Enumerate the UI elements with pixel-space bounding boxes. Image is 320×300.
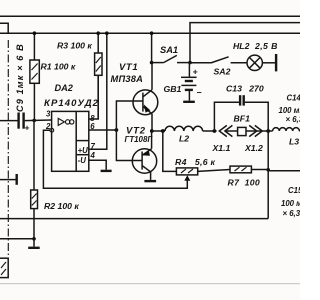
svg-text:L3: L3 [289, 137, 299, 147]
resistor (cropped, bottom-left) [0, 258, 8, 277]
wire VT2 collector to ground [150, 172, 153, 180]
svg-text:С13 270: С13 270 [226, 84, 264, 94]
svg-text:100 мк: 100 мк [281, 199, 300, 208]
node pin6 / base riser [115, 128, 119, 132]
ground (pin4) [101, 170, 112, 172]
svg-text:R7 100: R7 100 [228, 177, 261, 187]
svg-text:2,5 В: 2,5 В [254, 41, 278, 51]
resistor R7 [228, 166, 261, 187]
switch SA1 [152, 45, 190, 62]
resistor R1 [30, 33, 76, 120]
node R1 top on bus 2 [33, 31, 37, 35]
switch SA2 [189, 57, 247, 77]
svg-text:С14: С14 [287, 93, 301, 102]
wire lower left [0, 238, 34, 240]
wire bus 2 [0, 32, 300, 34]
wire pin2 feedback [43, 130, 187, 188]
ground (VT2) [144, 180, 156, 182]
wire base riser [116, 101, 142, 161]
node A (C9 / R1 / pin3) [32, 119, 36, 123]
wire VT2 emitter up [151, 131, 153, 149]
node R7 right [266, 168, 270, 172]
wire top bus [0, 15, 300, 17]
wire VT1 emitter [151, 114, 153, 131]
wire bottom bus [0, 218, 268, 220]
battery GB1 [164, 63, 202, 102]
headphone BF1 [234, 113, 251, 135]
page crop line [0, 283, 300, 285]
wire pin7 supply riser [89, 33, 107, 149]
capacitor C9 [0, 43, 52, 132]
svg-text:3: 3 [46, 110, 51, 119]
op-amp DA2 [44, 83, 99, 171]
potentiometer R4 [175, 157, 216, 181]
transistor VT2 [125, 126, 157, 174]
svg-text:VT1: VT1 [119, 62, 138, 73]
svg-text:КР140УД2: КР140УД2 [44, 98, 99, 109]
svg-text:Х1.2: Х1.2 [244, 143, 263, 153]
node R3 top on bus 2 [96, 31, 100, 35]
svg-text:SA2: SA2 [214, 67, 231, 77]
connector X1.2 [244, 125, 268, 153]
wire pin8 to R3 [89, 75, 98, 119]
resistor R2 [31, 120, 80, 246]
capacitor C15 label [281, 186, 308, 218]
svg-text:L2: L2 [179, 134, 189, 144]
node SA1 left [150, 61, 154, 65]
svg-text:SA1: SA1 [160, 45, 178, 55]
svg-text:R1 100 к: R1 100 к [41, 61, 76, 71]
wire common return riser [267, 131, 269, 219]
wire pin6 to bases [89, 129, 117, 131]
wire R4 to R7 [198, 170, 230, 172]
node supply riser on bus 2 [105, 31, 109, 35]
svg-text:7: 7 [91, 142, 96, 151]
wire R7 right [251, 169, 268, 171]
wire pin4 to ground bar [89, 160, 106, 170]
pin 2 terminal circle [50, 128, 54, 132]
node emitter junction [150, 129, 154, 133]
svg-text:× 6,3 В: × 6,3 В [283, 209, 301, 218]
terminal left stub [0, 174, 17, 185]
svg-text:R2 100 к: R2 100 к [44, 201, 79, 211]
resistor R3 [57, 33, 102, 119]
node battery plus [188, 61, 192, 65]
wire to C15 [268, 170, 300, 172]
inductor L2 [165, 126, 217, 143]
wire R4 left riser [163, 131, 177, 171]
svg-text:МП38А: МП38А [111, 74, 144, 84]
node R4 riser [161, 129, 165, 133]
svg-text:-U: -U [78, 156, 87, 165]
capacitor C14 label [279, 93, 312, 124]
svg-text:R3 100 к: R3 100 к [57, 40, 92, 50]
svg-text:DA2: DA2 [55, 83, 74, 93]
svg-text:4: 4 [90, 151, 96, 160]
wire left stub to bus 2 [0, 23, 8, 33]
transistor VT1 [111, 62, 158, 115]
svg-text:R4 5,6 к: R4 5,6 к [175, 157, 216, 167]
connector X1.1 [212, 125, 238, 153]
node R2 bottom [32, 237, 36, 241]
svg-text:+U: +U [78, 146, 89, 155]
wire emitter bus [152, 130, 165, 132]
svg-text:ГТ108Г: ГТ108Г [125, 135, 154, 144]
inductor L3 [268, 128, 300, 147]
wire right upper branch [190, 23, 300, 63]
svg-text:Х1.1: Х1.1 [212, 143, 231, 153]
ground (R2) [28, 247, 40, 249]
capacitor C13 [214, 84, 268, 132]
node X1.2 / C13 right / L3 [266, 129, 270, 133]
svg-text:−: − [197, 88, 202, 98]
wire SA1 riser [151, 33, 153, 62]
lamp HL2 [233, 41, 278, 71]
chain line (shield boundary) [7, 40, 9, 257]
svg-text:С9 1мк × 6 В: С9 1мк × 6 В [15, 43, 25, 112]
svg-text:BF1: BF1 [234, 113, 251, 123]
svg-text:+: + [25, 124, 30, 133]
wire VT1 collector [151, 63, 153, 90]
svg-text:100 мк: 100 мк [279, 106, 301, 115]
node SA1 riser on bus 2 [150, 31, 154, 35]
svg-text:GB1: GB1 [164, 84, 182, 94]
node X1.1 / C13 left [213, 129, 217, 133]
svg-text:+: + [193, 67, 198, 77]
svg-text:× 6,3 В: × 6,3 В [286, 115, 301, 124]
svg-text:С15: С15 [288, 186, 300, 195]
svg-text:HL2: HL2 [233, 41, 250, 51]
